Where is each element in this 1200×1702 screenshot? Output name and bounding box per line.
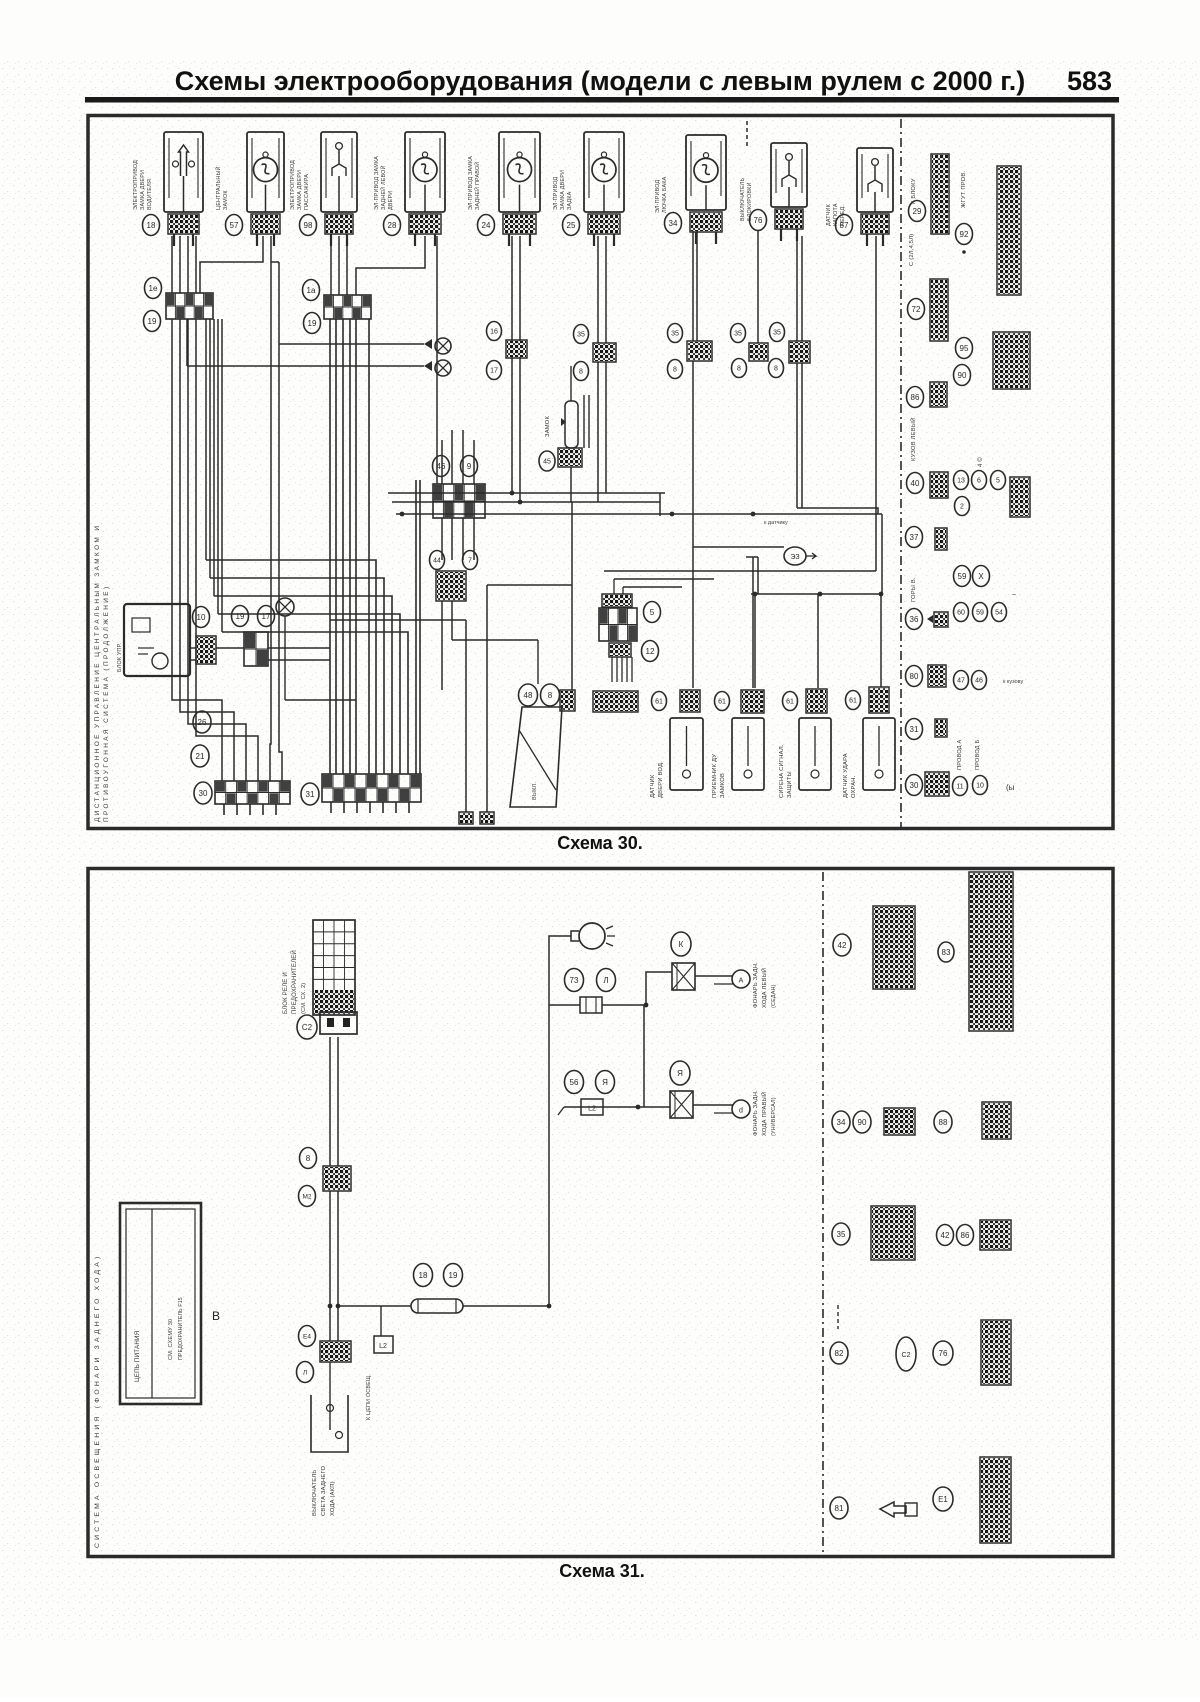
svg-text:25: 25	[567, 221, 576, 230]
connector ref circle U8	[750, 210, 767, 231]
legend tall block	[997, 166, 1021, 295]
svg-text:61: 61	[786, 699, 794, 706]
legend2 row 3 block 2	[980, 1220, 1011, 1250]
terminal lug 1	[459, 812, 473, 824]
component box U7 (motor)	[686, 135, 726, 210]
svg-text:16: 16	[490, 329, 498, 336]
svg-text:8: 8	[579, 369, 583, 376]
short feeds into connector C	[451, 430, 453, 484]
svg-text:90: 90	[958, 371, 967, 380]
connector L2	[581, 1099, 603, 1115]
svg-text:ОХРАН.: ОХРАН.	[851, 775, 857, 798]
svg-text:ПРИЕМНИК ДУ: ПРИЕМНИК ДУ	[712, 754, 718, 798]
svg-text:к датчику: к датчику	[764, 520, 788, 526]
svg-text:21: 21	[196, 752, 205, 761]
legend row 2 ref circle	[908, 299, 925, 320]
central junction connector C	[433, 484, 485, 518]
svg-text:С2: С2	[902, 1352, 911, 1359]
svg-text:ЦЕПЬ ПИТАНИЯ: ЦЕПЬ ПИТАНИЯ	[134, 1331, 141, 1382]
legend row 5 block	[1010, 477, 1030, 517]
switch assembly H circles	[519, 684, 538, 706]
staircase wires into strip A	[270, 690, 271, 781]
svg-text:61: 61	[849, 698, 857, 705]
svg-text:13: 13	[957, 478, 965, 485]
svg-text:95: 95	[960, 344, 969, 353]
legend2 row 2 block	[884, 1108, 915, 1135]
terminal box left of strip U	[560, 690, 575, 711]
legend row 2 circles	[956, 338, 973, 359]
svg-text:БЛОК РЕЛЕ И: БЛОК РЕЛЕ И	[283, 972, 289, 1014]
junction block S upper part	[602, 594, 632, 607]
wires below connector T	[611, 657, 613, 682]
lamp B1	[732, 970, 750, 988]
svg-text:86: 86	[961, 1231, 970, 1240]
svg-text:9: 9	[467, 462, 472, 471]
svg-text:76: 76	[939, 1349, 948, 1358]
svg-text:47: 47	[957, 678, 965, 685]
ref circles near L2	[565, 1071, 584, 1094]
svg-text:11: 11	[956, 784, 963, 791]
svg-text:72: 72	[912, 305, 921, 314]
legend2 row 4 oval	[896, 1337, 916, 1371]
svg-text:92: 92	[960, 230, 969, 239]
legend2 row 5 circle 2	[933, 1487, 953, 1511]
pin stubs under strip B	[330, 802, 332, 813]
legend row 2 connector	[930, 279, 948, 341]
svg-text:Е1: Е1	[938, 1495, 948, 1504]
svg-text:60: 60	[957, 610, 965, 617]
schema 30 legend divider	[900, 119, 902, 828]
svg-text:34: 34	[669, 219, 678, 228]
power feed box	[120, 1203, 201, 1404]
svg-text:45: 45	[543, 459, 551, 466]
svg-text:ЖГУТ ПРОВ.: ЖГУТ ПРОВ.	[961, 171, 967, 208]
legend row 8 connector	[927, 612, 948, 627]
relay RB1	[672, 963, 695, 990]
wire lamp T1 loop	[549, 936, 580, 1005]
fuse box grid block	[313, 920, 355, 1015]
wire RB1 to lamp B1	[695, 975, 733, 977]
legend2 row 2 circles	[832, 1111, 850, 1133]
svg-text:ЗАЩИТЫ: ЗАЩИТЫ	[787, 771, 793, 798]
multi-pin connector grid B	[324, 295, 371, 319]
legend2 row 1 block	[873, 906, 915, 989]
ref circle near E 3	[258, 606, 275, 627]
svg-text:8: 8	[673, 367, 677, 374]
svg-text:СИРЕНА СИГНАЛ.: СИРЕНА СИГНАЛ.	[779, 744, 785, 798]
bottom component B1 connector	[680, 690, 700, 712]
wire U2 to grid A	[200, 236, 263, 293]
legend row 6 connector	[935, 528, 947, 550]
svg-text:Я: Я	[677, 1069, 683, 1078]
reversing switch connector	[320, 1341, 351, 1362]
svg-text:2: 2	[960, 504, 964, 511]
svg-text:86: 86	[911, 393, 920, 402]
legend row 3 ref circle	[907, 387, 924, 408]
indicator lamp W1	[424, 338, 451, 354]
svg-text:Е4: Е4	[303, 1333, 311, 1340]
legend row 5 ref circle	[907, 473, 924, 494]
svg-text:42: 42	[838, 941, 847, 950]
inline connector L on U5 pair	[506, 340, 527, 358]
legend2 row 5 arrow	[880, 1502, 917, 1517]
svg-text:46: 46	[975, 678, 983, 685]
svg-text:8: 8	[774, 366, 778, 373]
riser wires with terminals	[465, 620, 467, 812]
svg-text:ДАТЧИК: ДАТЧИК	[650, 774, 656, 798]
svg-text:СИСТЕМА ОСВЕЩЕНИЯ (ФОНАРИ ЗАДН: СИСТЕМА ОСВЕЩЕНИЯ (ФОНАРИ ЗАДНЕГО ХОДА)	[94, 1254, 101, 1549]
grid A ref circle upper	[145, 278, 162, 299]
legend row 10 ref circle	[906, 719, 923, 740]
connector D	[436, 571, 466, 601]
svg-text:40: 40	[911, 479, 920, 488]
bottom connector strip B	[322, 774, 421, 802]
bus wire b1	[388, 492, 665, 494]
wire pair from fuse box	[329, 1037, 331, 1166]
wire pair beside diode	[583, 395, 585, 448]
svg-text:35: 35	[734, 331, 742, 338]
legend row 12 ref circle	[906, 775, 923, 796]
bottom component B1 ref circle	[652, 692, 667, 711]
connector below U1	[168, 214, 199, 234]
svg-text:19: 19	[148, 317, 157, 326]
svg-text:48: 48	[524, 691, 533, 700]
wire right riser	[875, 236, 877, 571]
svg-text:28: 28	[388, 221, 397, 230]
lower circuit bus	[564, 1106, 670, 1108]
inline connector O	[687, 341, 712, 361]
legend row 10 connector	[935, 719, 947, 737]
bottom component B4 ref circle	[846, 691, 861, 710]
switch ref circle 1	[299, 1326, 316, 1347]
legend2 row 4 dash	[837, 1305, 839, 1329]
svg-text:19: 19	[308, 319, 317, 328]
svg-text:ДВЕРИ ВОД.: ДВЕРИ ВОД.	[658, 761, 664, 798]
legend2 row 1 tall block	[969, 872, 1013, 1031]
component box U6 (motor)	[584, 132, 624, 212]
component box U2 (motor)	[247, 132, 284, 212]
svg-text:(ы: (ы	[1006, 783, 1015, 792]
lamp B2	[732, 1100, 750, 1118]
legend2 row 2 circle 2	[934, 1111, 952, 1133]
svg-text:35: 35	[773, 330, 781, 337]
svg-text:583: 583	[1067, 66, 1112, 96]
svg-text:ЦЕНТРАЛЬНЫЙ: ЦЕНТРАЛЬНЫЙ	[214, 166, 222, 210]
schema 31 legend divider	[822, 872, 824, 1554]
connector ref circle U7	[665, 213, 682, 234]
indicator lamp W2	[424, 360, 451, 376]
svg-text:ФОНАРЬ ЗАДН.: ФОНАРЬ ЗАДН.	[753, 962, 759, 1008]
component box U8 (switch)	[771, 143, 807, 207]
legend2 row 4 block	[981, 1320, 1011, 1385]
wire junction up to relay RB1	[646, 972, 672, 1005]
svg-text:18: 18	[147, 221, 156, 230]
svg-text:76: 76	[754, 216, 763, 225]
diode connector ref circle	[539, 451, 555, 471]
wire bundle U1 to grid A	[171, 236, 173, 293]
svg-text:ЭЛЕКТРОПРИВОД: ЭЛЕКТРОПРИВОД	[133, 160, 139, 210]
wire U3 drop	[278, 262, 280, 700]
bottom component B3 ref circle	[783, 692, 798, 711]
connector Q ref circle lower	[769, 359, 784, 378]
relay RB2 ref circle	[670, 1061, 690, 1085]
branch connector L2b	[380, 1306, 382, 1336]
svg-text:12: 12	[646, 647, 655, 656]
schema 30 border frame	[88, 116, 1113, 829]
svg-text:ЭЛ-ПРИВОД: ЭЛ-ПРИВОД	[655, 180, 661, 213]
svg-text:ХОДА ПРАВЫЙ: ХОДА ПРАВЫЙ	[760, 1092, 768, 1136]
bottom component B3 connector	[806, 689, 827, 713]
connector N ref circle upper	[574, 325, 589, 344]
legend2 row 2 block 2	[982, 1102, 1011, 1139]
legend row 5 circles	[954, 471, 969, 490]
wire U4 to grid B	[356, 236, 425, 295]
bottom component B4 box	[863, 718, 895, 790]
svg-text:ПРОВОД А: ПРОВОД А	[957, 740, 963, 770]
svg-text:8: 8	[306, 1154, 311, 1163]
svg-text:~: ~	[1012, 592, 1016, 599]
connector below U2	[251, 214, 280, 234]
svg-text:5: 5	[650, 608, 655, 617]
schema 31 border frame	[88, 869, 1113, 1557]
svg-text:ЭЗ: ЭЗ	[790, 554, 799, 561]
legend row 6 ref circle	[906, 527, 923, 548]
svg-text:8: 8	[737, 366, 741, 373]
legend2 row 5 ref circle	[830, 1497, 848, 1519]
connector ref circle U6	[563, 215, 580, 236]
wire CN1 to junction	[602, 1004, 646, 1006]
svg-text:35: 35	[837, 1230, 846, 1239]
wire U3 to grid B	[330, 236, 332, 295]
legend row 12 connector	[925, 772, 949, 796]
inline connector N	[593, 343, 616, 362]
svg-text:42: 42	[941, 1231, 950, 1240]
connector below U9	[861, 214, 889, 234]
bus wire b8	[623, 586, 682, 588]
connector below U7	[690, 212, 722, 232]
wire diode to bus	[570, 467, 572, 502]
svg-text:(СЕДАН): (СЕДАН)	[771, 984, 777, 1008]
connector below U3	[325, 214, 353, 234]
bottom component B1 box	[670, 718, 703, 790]
svg-text:ЭЛ-ПРИВОД ЗАМКА: ЭЛ-ПРИВОД ЗАМКА	[374, 156, 380, 210]
svg-text:ЗАДНЕЙ ЛЕВОЙ: ЗАДНЕЙ ЛЕВОЙ	[379, 165, 387, 210]
svg-text:БЛОК УПР.: БЛОК УПР.	[117, 643, 123, 672]
connector below U5	[503, 214, 536, 234]
legend row 1 ref circle 2	[956, 224, 973, 245]
main bus wire	[338, 1305, 411, 1307]
svg-text:(СМ. СХ. 2): (СМ. СХ. 2)	[301, 983, 307, 1014]
connector P ref circle upper	[731, 324, 746, 343]
svg-text:ВЫКЛЮЧАТЕЛЬ: ВЫКЛЮЧАТЕЛЬ	[740, 177, 746, 221]
svg-text:18: 18	[419, 1271, 428, 1280]
svg-text:ВЫКЛЮЧАТЕЛЬ: ВЫКЛЮЧАТЕЛЬ	[312, 1470, 318, 1516]
svg-text:1a: 1a	[307, 286, 316, 295]
svg-text:A: A	[739, 978, 744, 985]
block S ref circle upper	[644, 602, 661, 623]
svg-text:к кузову: к кузову	[1003, 679, 1023, 685]
svg-text:ЗАМОК: ЗАМОК	[223, 190, 229, 210]
connector below U6	[588, 214, 620, 234]
component box U5 (motor)	[499, 132, 540, 212]
legend row 9 circles	[954, 671, 969, 690]
connector D ref circle left	[430, 551, 445, 570]
svg-text:ХОДА ЛЕВЫЙ: ХОДА ЛЕВЫЙ	[760, 968, 768, 1008]
fuse ref circle 1	[414, 1264, 433, 1287]
connector L ref circle lower	[487, 361, 502, 380]
mid connector M1	[323, 1166, 351, 1191]
svg-text:КУЗОВ ЛЕВЫЙ: КУЗОВ ЛЕВЫЙ	[909, 418, 917, 461]
legend row 5 connector	[930, 472, 948, 498]
svg-text:ПРОТИВОУГОННАЯ СИСТЕМА (ПРОДОЛ: ПРОТИВОУГОННАЯ СИСТЕМА (ПРОДОЛЖЕНИЕ)	[103, 585, 110, 822]
connector T	[609, 643, 631, 657]
connector P ref circle lower	[732, 359, 747, 378]
reversing switch body	[311, 1395, 348, 1452]
relay RB2	[670, 1091, 693, 1118]
svg-text:1e: 1e	[149, 284, 158, 293]
dashed leader near U8	[746, 121, 748, 147]
wire b3 end drop	[881, 514, 883, 594]
svg-text:57: 57	[230, 221, 239, 230]
svg-text:30: 30	[910, 781, 919, 790]
wire bundle from grid A down	[172, 319, 222, 781]
svg-text:СМ. СХЕМУ 30: СМ. СХЕМУ 30	[168, 1319, 174, 1360]
svg-text:ГОРЫ В.: ГОРЫ В.	[911, 577, 917, 602]
legend row 2 block	[993, 332, 1030, 389]
connector strip U	[593, 691, 638, 712]
svg-text:Л: Л	[603, 976, 608, 985]
header rule	[85, 97, 1119, 103]
svg-text:46: 46	[437, 462, 446, 471]
grid B ref circle lower	[304, 313, 321, 334]
svg-text:ПРЕДОХРАНИТЕЛЬ F15: ПРЕДОХРАНИТЕЛЬ F15	[178, 1297, 184, 1360]
svg-text:36: 36	[910, 615, 919, 624]
legend2 row 3 ref circle	[832, 1223, 850, 1245]
legend2 row 4 ref circle	[830, 1342, 848, 1364]
wires below connector C	[441, 518, 443, 560]
svg-text:ЭЛ-ПРИВОД ЗАМКА: ЭЛ-ПРИВОД ЗАМКА	[468, 156, 474, 210]
bottom component B2 ref circle	[715, 692, 730, 711]
svg-text:L2: L2	[588, 1106, 596, 1113]
lamp K	[276, 598, 294, 616]
diode element	[561, 366, 578, 448]
connector ref circle U9	[836, 215, 853, 236]
svg-text:Схема 31.: Схема 31.	[559, 1561, 644, 1581]
svg-text:ПАССАЖИРА: ПАССАЖИРА	[304, 174, 310, 210]
svg-text:ДАТЧИК: ДАТЧИК	[826, 203, 832, 226]
svg-text:31: 31	[306, 790, 315, 799]
fuse F1	[411, 1299, 463, 1313]
svg-text:ЗАМКА ДВЕРИ: ЗАМКА ДВЕРИ	[560, 170, 566, 210]
bus wire b5	[751, 593, 882, 595]
legend2 row 5 block	[980, 1457, 1011, 1543]
connector F	[196, 636, 216, 664]
central bundle lower feeds staircase	[206, 560, 376, 774]
switch assembly H body	[510, 707, 562, 807]
legend row 1 connector	[931, 154, 949, 234]
block S ref circle lower	[642, 641, 659, 662]
legend row 7 circles	[954, 566, 971, 587]
control unit box E	[124, 604, 190, 676]
svg-text:90: 90	[858, 1118, 867, 1127]
ref circle staircase 1	[193, 711, 211, 733]
svg-text:73: 73	[570, 976, 579, 985]
svg-text:7: 7	[468, 558, 472, 565]
connector under diode	[558, 448, 582, 467]
legend2 row 3 block	[871, 1206, 915, 1260]
svg-text:d: d	[739, 1108, 743, 1115]
svg-text:30: 30	[199, 789, 208, 798]
svg-text:Л: Л	[303, 1369, 307, 1376]
svg-text:81: 81	[835, 1504, 844, 1513]
wires below connector D	[441, 601, 443, 690]
legend row 9 ref circle	[906, 666, 923, 687]
connector Q ref circle upper	[770, 323, 785, 342]
svg-text:ДИСТАНЦИОННОЕ УПРАВЛЕНИЕ ЦЕНТР: ДИСТАНЦИОННОЕ УПРАВЛЕНИЕ ЦЕНТРАЛЬНЫМ ЗАМ…	[94, 524, 101, 822]
svg-text:61: 61	[718, 699, 726, 706]
connector under fuse box	[320, 1012, 357, 1034]
connector L ref circle upper	[487, 322, 502, 341]
svg-text:ЭЛ-ПРИВОД: ЭЛ-ПРИВОД	[553, 177, 559, 210]
ref circle near E 1	[193, 607, 210, 628]
svg-text:34: 34	[837, 1118, 846, 1127]
component box U3 (switch)	[321, 132, 357, 212]
ref circle staircase 2	[191, 745, 209, 767]
svg-text:С (2Л,4,5Л): С (2Л,4,5Л)	[909, 234, 915, 266]
bottom component B2 box	[732, 718, 764, 790]
wire U2 drop	[270, 236, 272, 690]
central bundle pair from connector C	[415, 480, 417, 774]
central vertical wire bundle	[329, 319, 331, 774]
connector below U4	[409, 214, 441, 234]
bus wire b7	[614, 578, 714, 580]
connector C ref circle left	[433, 456, 450, 477]
svg-text:ДАТЧИК УДАРА: ДАТЧИК УДАРА	[843, 753, 849, 798]
svg-text:ЗАМОК: ЗАМОК	[545, 415, 551, 437]
svg-text:98: 98	[304, 221, 313, 230]
svg-text:19: 19	[449, 1271, 458, 1280]
legend row 8 ref circle	[906, 609, 923, 630]
bottom component B4 connector	[869, 687, 889, 713]
wire bus to indicator lamps	[186, 319, 188, 366]
bottom connector strip A	[215, 781, 290, 804]
bus wire b3	[396, 513, 882, 515]
connector CN1	[580, 997, 602, 1013]
wire U8 drop to connector P	[757, 231, 759, 343]
long riser wire	[548, 1005, 550, 1306]
legend row 3 connector	[930, 382, 947, 407]
switch ref circle 2	[297, 1362, 314, 1383]
svg-text:ЭЛЕКТРОПРИВОД: ЭЛЕКТРОПРИВОД	[290, 160, 296, 210]
svg-text:80: 80	[910, 672, 919, 681]
connector ref circle U4	[384, 215, 401, 236]
svg-text:К: К	[679, 940, 684, 949]
lamp circuit top: lamp T1	[571, 923, 615, 949]
svg-text:35: 35	[671, 331, 679, 338]
svg-text:ДВЕРИ: ДВЕРИ	[388, 191, 394, 210]
svg-text:ПРЕДОХРАНИТЕЛЕЙ: ПРЕДОХРАНИТЕЛЕЙ	[290, 950, 298, 1014]
svg-text:Схемы электрооборудования (мод: Схемы электрооборудования (модели с левы…	[175, 66, 1025, 96]
svg-text:К ЦЕПИ ОСВЕЩ.: К ЦЕПИ ОСВЕЩ.	[366, 1374, 372, 1420]
svg-text:35: 35	[577, 332, 585, 339]
svg-text:ЗАДНЕЙ ПРАВОЙ: ЗАДНЕЙ ПРАВОЙ	[473, 162, 481, 210]
svg-text:56: 56	[570, 1078, 579, 1087]
component box U9 (switch)	[857, 148, 893, 212]
fuse ref circle 2	[444, 1264, 463, 1287]
connector O ref circle upper	[668, 324, 683, 343]
svg-text:5: 5	[996, 478, 1000, 485]
wires U9 drop to connector Q	[796, 236, 798, 341]
